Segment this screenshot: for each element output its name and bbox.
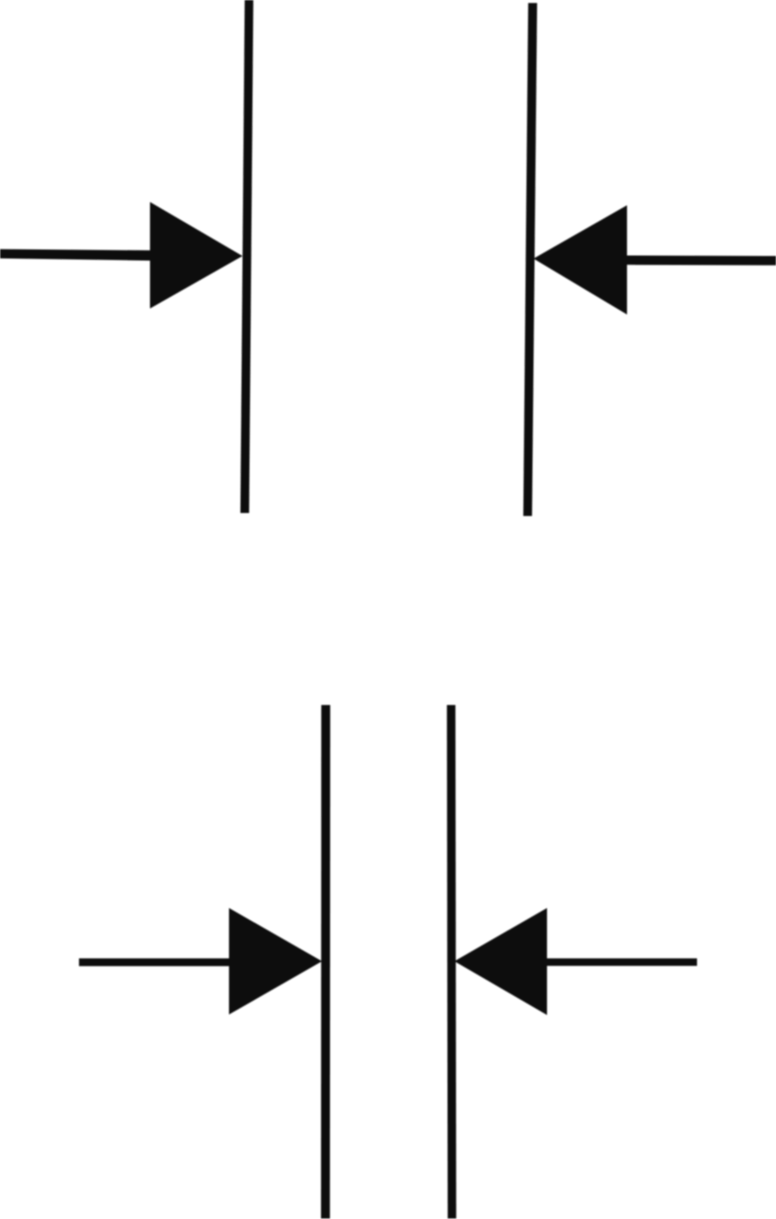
wire: bottom-left arrow shaft	[79, 958, 230, 966]
wire: top-right vertical barrier line	[523, 3, 537, 516]
node D: bottom-right arrowhead triangle	[454, 908, 547, 1015]
wire: bottom-left vertical barrier line	[321, 705, 330, 1219]
node B: top-right arrowhead triangle	[534, 205, 628, 314]
node C: bottom-left arrowhead triangle	[229, 908, 322, 1015]
node A: top-left arrowhead triangle	[150, 202, 243, 309]
wire: top-left vertical barrier line	[240, 0, 253, 513]
wire: top-right arrow shaft	[626, 256, 776, 266]
wire: bottom-right vertical barrier line	[447, 705, 456, 1219]
wire: top-left arrow shaft	[0, 249, 152, 261]
wire: bottom-right arrow shaft	[546, 958, 697, 966]
